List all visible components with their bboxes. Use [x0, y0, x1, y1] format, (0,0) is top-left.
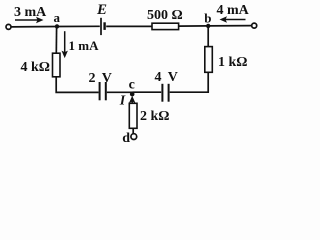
svg-text:c: c — [129, 77, 135, 92]
svg-text:2 kΩ: 2 kΩ — [140, 109, 170, 124]
wire: battery E to resistor 500 — [106, 25, 152, 27]
node b — [206, 24, 210, 28]
svg-text:500 Ω: 500 Ω — [147, 8, 183, 23]
svg-text:d: d — [122, 131, 130, 144]
svg-text:4 V: 4 V — [155, 70, 180, 85]
node a — [55, 24, 59, 28]
wire: left terminal to node a — [11, 26, 57, 28]
wire: node b down to resistor 1k — [207, 26, 209, 47]
resistor 500 ohm — [152, 23, 179, 29]
terminal (left) — [6, 24, 11, 29]
node c — [130, 92, 135, 97]
capacitor 4V — [162, 84, 168, 102]
wire: resistor 500 to node b — [179, 25, 209, 27]
current arrow I — [129, 96, 135, 105]
svg-text:I: I — [119, 94, 126, 109]
svg-text:2 V: 2 V — [89, 71, 114, 86]
current arrow 1 mA — [62, 31, 68, 58]
wire: capacitor 2V to node c — [107, 91, 133, 93]
svg-text:a: a — [54, 10, 61, 25]
svg-text:4 mA: 4 mA — [217, 3, 250, 18]
svg-text:4 kΩ: 4 kΩ — [21, 60, 51, 75]
wire: node a down to resistor 4k — [55, 27, 57, 54]
resistor 2k ohm — [129, 103, 137, 128]
wire: capacitor 4V right and up to resistor 1k — [170, 72, 209, 92]
wire: node b to right terminal — [208, 25, 251, 27]
wire: resistor 4k down and right to capacitor 2V — [56, 77, 98, 93]
current arrow 3 mA — [15, 17, 44, 23]
wire: node c to capacitor 4V — [132, 91, 161, 93]
svg-text:1 mA: 1 mA — [69, 38, 100, 53]
svg-text:1 kΩ: 1 kΩ — [218, 55, 248, 70]
current arrow 4 mA — [220, 16, 246, 22]
svg-text:3 mA: 3 mA — [14, 5, 47, 20]
resistor 1k ohm — [205, 47, 213, 73]
resistor 4k ohm — [53, 53, 61, 77]
wire: resistor 2k to terminal d — [132, 128, 134, 134]
terminal (right) — [252, 23, 257, 28]
svg-text:b: b — [204, 10, 211, 25]
capacitor 2V — [100, 82, 106, 100]
battery E — [101, 18, 105, 35]
terminal d — [131, 134, 137, 140]
wire: node a to battery E — [57, 25, 100, 27]
svg-text:E: E — [96, 2, 107, 18]
